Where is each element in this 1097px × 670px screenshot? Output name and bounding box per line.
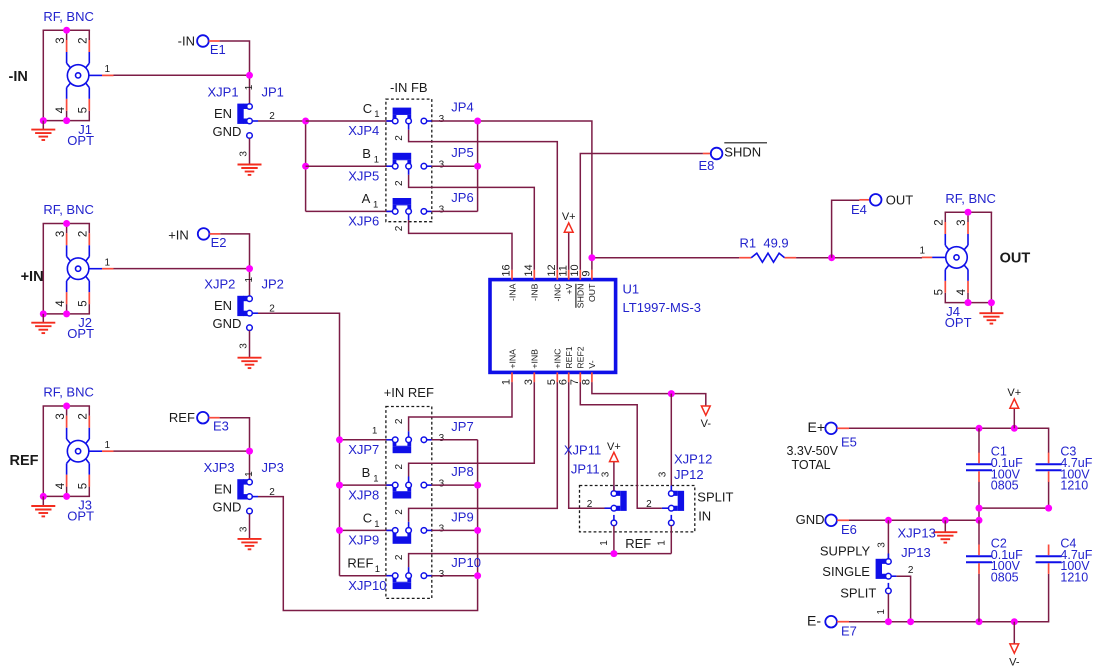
wire JP9 row pin1 [340,529,393,531]
wire V+ rail [849,428,1049,453]
jumper XJP13 cap [876,559,882,579]
jumper XJP10 cap [393,577,412,582]
jumper XJP8 pin 2 [406,482,412,488]
jumper XJP7 pin3 stub [427,439,432,441]
svg-text:3: 3 [523,379,535,385]
svg-text:E2: E2 [211,235,227,250]
svg-text:-INA: -INA [507,283,517,301]
jumper XJP6 pin 2 [406,209,412,215]
wire V- branch to JP12 pin 3 [670,394,672,491]
junction REF net JP11 [610,550,617,557]
connector J4 outline [945,212,993,302]
connector J2 junction bottom left [40,310,47,317]
capacitor C3 plates [1036,464,1062,470]
wire JP12 pin 1 to REF net [670,525,672,553]
svg-text:RF, BNC: RF, BNC [945,191,996,206]
connector J1 pin column [86,30,90,120]
svg-text:-IN: -IN [9,69,28,85]
jumper JP11 pin 1 [611,520,617,526]
wire feedback riser [477,121,479,211]
svg-text:3.3V-50V: 3.3V-50V [787,444,839,458]
terminal E7 stub [837,621,849,623]
wire XJP10 pin2 REF net [409,554,672,568]
svg-text:2: 2 [646,499,652,510]
ground under J1 [42,121,44,130]
svg-text:B: B [362,146,371,161]
jumper XJP9 cap [393,532,412,537]
svg-text:SHDN: SHDN [724,144,761,159]
jumper JP12 pin1 stub [670,515,672,520]
resistor R1 [739,253,796,262]
jumper JP11 pin 2 [611,505,617,511]
svg-text:IN: IN [698,508,711,523]
svg-text:16: 16 [501,264,513,276]
connector J3 pin column [67,406,71,496]
svg-text:+IN REF: +IN REF [384,385,434,400]
svg-text:XJP13: XJP13 [898,526,936,541]
U1 pin 3 stub [533,372,535,382]
svg-text:3: 3 [439,478,445,489]
connector J1 pin 1 stub [89,74,114,76]
terminal E1 stub [209,40,220,42]
connector J4 pin column [945,212,949,302]
junction bus B row [302,163,309,170]
svg-text:6: 6 [557,379,569,385]
jumper XJP7 pin2 stub [408,431,410,437]
jumper JP12 pin3 stub [670,486,672,491]
V- arrow power rail [1009,644,1020,669]
wire XJP6 pin2 to U1 pin 16 [409,220,512,270]
svg-text:1: 1 [374,154,379,165]
wire B row pin1 [306,165,393,167]
junction E2/J2/XJP2 [246,265,253,272]
terminal E4 [870,194,882,206]
jumper XJP2 pin 2 [247,310,253,316]
wire C1 top [978,428,980,453]
jumper XJP4 cap [393,114,412,119]
wire C2 bottom [978,574,980,622]
jumper XJP10 pin1 stub [386,575,392,577]
svg-text:3: 3 [439,433,445,444]
svg-text:SPLIT: SPLIT [840,585,876,600]
wire U1 pin 8 to V- [592,382,706,406]
wire U1 pin 7 to JP12 pin 2 [580,382,662,508]
jumper XJP2 pin 3 [247,325,253,331]
U1 pin 7 stub [579,372,581,382]
connector J2 junction top [63,220,70,227]
ground under XJP3 [238,539,262,549]
U1 pin 6 stub [568,372,570,382]
svg-text:3: 3 [601,471,612,477]
jumper JP12 pin 1 [669,520,675,526]
wire J1 pin1 to junction [114,74,250,76]
junction E- rail V- [1011,618,1018,625]
wire U1 pin 6 to JP11 pin 2 [569,382,605,508]
svg-text:XJP3: XJP3 [204,460,235,475]
U1 pin 1 stub [511,372,513,382]
svg-text:E4: E4 [851,202,867,217]
svg-text:3: 3 [238,343,249,349]
svg-text:XJP10: XJP10 [348,578,386,593]
wire mid GND row C1-C3 [979,507,1049,509]
wire C3 bottom [1048,482,1050,508]
connector J1 junction bottom left [40,117,47,124]
svg-text:2: 2 [78,413,90,419]
svg-text:3: 3 [439,205,445,216]
jumper XJP6 pin2 stub [408,214,410,220]
jumper XJP4 pin 3 [421,118,427,124]
svg-text:OPT: OPT [67,326,94,341]
svg-text:1: 1 [372,426,377,437]
jumper XJP10 pin 3 [421,573,427,579]
jumper XJP6 pin 1 [392,209,398,215]
svg-text:+IN: +IN [168,227,189,242]
svg-text:REF: REF [625,536,651,551]
capacitor C3 pin stubs [1048,453,1050,482]
svg-text:+INA: +INA [507,349,517,369]
svg-text:12: 12 [546,264,558,276]
svg-text:XJP6: XJP6 [348,214,379,229]
svg-text:JP3: JP3 [262,460,284,475]
jumper JP11 cap [620,491,626,511]
terminal E3 stub [209,417,220,419]
svg-text:REF: REF [10,453,39,469]
jumper XJP7 pin 2 [406,437,412,443]
svg-text:3: 3 [877,542,888,548]
wire E3 to XJP3 pin1 [220,418,250,480]
ground under J3 [42,496,44,505]
svg-text:2: 2 [394,509,405,515]
junction REF riser JP9 [474,527,481,534]
svg-text:JP11: JP11 [571,462,600,477]
U1 pin 10 stub [579,270,581,280]
wire XJP9 pin2 to U1 pin 5 [409,382,558,522]
jumper XJP10 pin3 stub [427,575,432,577]
junction V- branch [668,390,675,397]
connector J3 outline [43,406,91,496]
wire C2 top [978,520,980,544]
connector J2 junction bottom mid [63,310,70,317]
svg-text:8: 8 [581,379,593,385]
svg-text:V-: V- [1009,657,1020,669]
wire XJP10 pin3 [432,575,478,577]
junction E1/J1/XJP1 [246,72,253,79]
svg-text:1: 1 [920,245,926,256]
svg-text:OPT: OPT [945,315,972,330]
jumper XJP2 pin 2 stub [252,312,258,314]
U1 pin 5 stub [556,372,558,382]
svg-text:REF1: REF1 [564,346,574,368]
connector J4 pin 1 stub [922,256,946,258]
svg-text:-INB: -INB [530,283,540,301]
svg-text:3: 3 [55,37,67,43]
terminal E4 stub [859,199,869,201]
svg-text:E6: E6 [841,522,857,537]
svg-text:3: 3 [439,159,445,170]
jumper XJP1 pin 2 stub [252,120,258,122]
jumper XJP13 pin1 stub [887,583,889,588]
jumper XJP3 pin 1 [247,479,253,485]
connector J1 junction bottom mid [63,117,70,124]
svg-text:V+: V+ [1007,387,1021,399]
svg-text:XJP1: XJP1 [208,85,239,100]
svg-text:+INB: +INB [530,349,540,369]
terminal E2 [198,228,210,240]
ground under J2 [42,314,44,323]
U1 pin 14 stub [533,270,535,280]
svg-text:1: 1 [244,276,255,282]
svg-text:EN: EN [214,106,232,121]
jumper JP12 cap [678,491,684,511]
wire bus XJP1 to rows [305,121,307,211]
jumper XJP13 pin 3 [886,559,892,565]
junction feedback C row [474,118,481,125]
jumper XJP3 pin 2 stub [252,496,258,498]
svg-text:2: 2 [394,135,405,141]
wire XJP8 pin3 [432,484,478,486]
svg-text:5: 5 [78,483,90,489]
ground stem at XJP13 [944,520,946,532]
jumper XJP3 pin 3 [247,508,253,514]
junction J4 top [965,209,972,216]
svg-text:JP1: JP1 [262,85,284,100]
svg-text:GND: GND [213,499,242,514]
svg-text:EN: EN [214,298,232,313]
jumper XJP9 pin 1 [392,528,398,534]
svg-text:R1 49.9: R1 49.9 [740,235,789,250]
jumper XJP4 pin2 stub [408,124,410,130]
jumper XJP9 pin3 stub [427,529,432,531]
terminal E7 [825,616,837,628]
connector J3 pin column [86,406,90,496]
svg-text:SUPPLY: SUPPLY [820,544,871,559]
junction REF riser JP8 [474,482,481,489]
wire XJP2 pin2 to +IN bus [258,313,340,576]
wire J2 pin1 to junction [114,268,250,270]
wire JP11 pin 3 to V+ [613,462,615,491]
svg-text:JP12: JP12 [674,467,704,482]
connector J4 pin column [964,212,968,302]
svg-text:1: 1 [876,609,887,615]
svg-text:OUT: OUT [1000,250,1031,266]
wire OUT net from U1 pin 9 [592,257,739,259]
jumper XJP8 pin2 stub [408,477,410,483]
jumper XJP13 pin 1 [886,588,892,594]
svg-text:-INC: -INC [553,284,563,302]
wire XJP2 pin3 to ground [249,331,251,358]
connector J3 BNC circle [67,440,89,462]
svg-text:U1: U1 [623,282,640,297]
connector J2 outline [43,224,91,314]
svg-text:XJP12: XJP12 [674,451,712,466]
terminal E6 stub [837,519,849,521]
svg-text:3: 3 [439,524,445,535]
wire to terminal E4 [832,200,860,257]
svg-text:XJP9: XJP9 [348,533,379,548]
svg-text:3: 3 [956,219,968,225]
wire XJP13 pin 1 [887,594,889,622]
svg-text:3: 3 [238,151,249,157]
junction GND rail ground [942,517,949,524]
jumper XJP13 pin3 stub [887,554,889,559]
svg-text:JP8: JP8 [451,464,473,479]
V+ stem [1013,408,1015,428]
jumper XJP6 pin3 stub [427,210,432,212]
junction bus JP9 [336,527,343,534]
jumper XJP13 pin 2 [886,573,892,579]
svg-text:3: 3 [55,231,67,237]
svg-text:3: 3 [658,471,669,477]
svg-text:JP2: JP2 [262,277,284,292]
svg-text:B: B [362,465,371,480]
svg-text:SPLIT: SPLIT [697,490,733,505]
svg-text:-IN: -IN [178,34,195,49]
svg-text:XJP7: XJP7 [348,442,379,457]
jumper XJP4 pin 2 [406,118,412,124]
svg-text:1: 1 [374,109,379,120]
svg-text:E1: E1 [210,42,226,57]
jumper XJP13 pin2 stub [891,575,896,577]
ground symbol XJP13 [933,532,957,542]
svg-text:2: 2 [934,219,946,225]
wire XJP3 pin2 REF net [258,440,478,611]
jumper XJP5 pin1 stub [386,165,392,167]
dashed box -IN FB [386,99,432,222]
svg-text:1: 1 [105,64,111,75]
capacitor C4 plates [1036,556,1062,562]
svg-text:1: 1 [656,540,667,546]
wire U1 pin 11 to V+ [568,232,570,270]
wire JP7 row pin1 [340,439,393,441]
wire A row pin1 [306,210,393,212]
svg-text:E-: E- [807,613,821,629]
jumper JP11 pin1 stub [613,515,615,520]
connector J4 BNC circle [946,247,968,269]
svg-text:9: 9 [581,270,593,276]
capacitor C1 plates [966,464,992,470]
svg-text:5: 5 [78,107,90,113]
svg-text:1: 1 [375,564,380,575]
jumper XJP8 pin1 stub [386,484,392,486]
wire XJP7 pin2 to U1 pin 1 [409,382,512,431]
svg-text:3: 3 [439,569,445,580]
svg-text:E5: E5 [841,435,857,450]
IC U1 body [490,280,616,373]
wire XJP5 pin2 to U1 pin 14 [409,175,535,270]
wire XJP1 pin3 to ground [249,138,251,164]
svg-text:1: 1 [244,471,255,477]
junction E3/J3/XJP3 [246,448,253,455]
svg-text:1: 1 [373,200,378,211]
connector J1 pin column [67,30,71,120]
junction REF riser JP10 [474,572,481,579]
capacitor C2 plates [966,556,992,562]
wire C1 bottom to GND rail [978,482,980,520]
svg-text:-IN FB: -IN FB [390,80,428,95]
jumper JP11 pin2 stub [605,507,612,509]
svg-text:2: 2 [394,180,405,186]
jumper XJP1 pin 1 [247,104,253,110]
svg-text:11: 11 [557,265,569,276]
svg-text:3: 3 [55,413,67,419]
terminal E1 [197,35,209,47]
junction V+ rail arrow [1011,425,1018,432]
svg-text:V+: V+ [607,441,621,453]
wire E1 to XJP1 pin1 [220,41,250,104]
junction bus JP7 [336,436,343,443]
wire XJP13 pin 3 riser [887,520,889,558]
svg-text:1: 1 [599,540,610,546]
jumper XJP1 pin 3 [247,133,253,139]
svg-text:JP6: JP6 [451,190,473,205]
jumper XJP10 pin2 stub [408,567,410,573]
svg-text:JP9: JP9 [451,510,473,525]
jumper XJP10 pin 2 [406,573,412,579]
wire E2 to XJP2 pin1 [220,234,249,296]
junction mid row C1 [976,505,983,512]
U1 pin 8 stub [591,372,593,382]
dashed box +IN REF [386,407,432,599]
svg-text:RF, BNC: RF, BNC [43,202,94,217]
svg-text:E3: E3 [213,419,229,434]
svg-text:1210: 1210 [1060,479,1088,493]
connector J2 pin column [86,224,90,314]
svg-text:JP13: JP13 [901,545,931,560]
terminal E8 stub [703,153,711,155]
V- arrow right of U1 [701,406,712,430]
junction feedback B row [474,163,481,170]
jumper XJP7 pin 1 [392,437,398,443]
dashed box SPLIT IN REF [580,486,695,532]
wire JP10 row pin1 [340,575,393,577]
jumper JP11 pin 3 [611,491,617,497]
jumper XJP8 pin 3 [421,482,427,488]
jumper XJP2 pin 1 [247,296,253,302]
connector J2 BNC circle [67,258,89,280]
connector J2 pin 1 stub [89,268,114,270]
svg-text:OUT: OUT [587,283,597,302]
wire E- rail [849,574,1049,622]
svg-text:5: 5 [546,379,558,385]
connector J3 pin 1 stub [89,450,114,452]
junction E- rail C2 [976,618,983,625]
svg-text:2: 2 [394,225,405,231]
svg-text:2: 2 [908,565,914,576]
terminal E8 [711,148,723,160]
ground under XJP2 [238,358,262,368]
svg-text:7: 7 [569,379,581,385]
terminal E5 stub [837,427,849,429]
jumper JP11 pin3 stub [613,486,615,491]
V- stem power rail [1013,622,1015,644]
terminal E3 [197,412,209,424]
jumper XJP5 pin 1 [392,163,398,169]
V+ arrow above U1 [562,211,576,232]
connector J3 junction bottom left [40,493,47,500]
jumper XJP9 pin 2 [406,528,412,534]
svg-text:4: 4 [55,482,67,489]
jumper XJP8 cap [393,487,412,492]
jumper XJP5 pin 3 [421,163,427,169]
U1 SHDN overline [575,284,577,308]
U1 pin 9 stub [591,270,593,280]
jumper JP12 pin2 stub [662,507,669,509]
jumper XJP5 pin3 stub [427,165,432,167]
svg-text:GND: GND [796,512,825,527]
jumper XJP6 pin1 stub [386,210,392,212]
jumper XJP1 cap [237,104,248,124]
capacitor C4 pin stubs [1048,545,1050,574]
